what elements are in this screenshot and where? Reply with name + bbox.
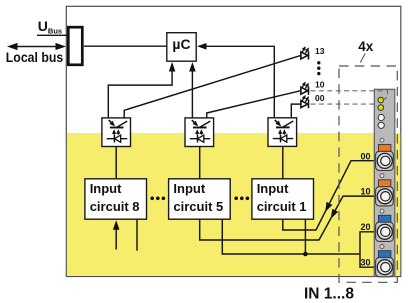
wire opto U4 output to µC (arrow) bbox=[199, 46, 274, 118]
wire input circuit 1 to ground bus bbox=[304, 219, 306, 254]
svg-text:30: 30 bbox=[360, 258, 370, 268]
ellipsis between circuit 8 and 5 bbox=[150, 197, 165, 201]
module outer frame bbox=[66, 6, 401, 276]
ground bus wire to input circuits bbox=[222, 219, 360, 254]
field side yellow area bbox=[67, 133, 400, 276]
wire terminal 10 to input circuit 5 (arrow) bbox=[200, 196, 382, 240]
dashed 4x group box bbox=[339, 66, 397, 282]
ground bus wire linking terminals 20 and 30 bbox=[360, 232, 382, 267]
svg-text:00: 00 bbox=[315, 93, 325, 103]
optocoupler U4 bbox=[268, 118, 297, 147]
svg-text:Local bus: Local bus bbox=[6, 50, 63, 65]
input circuit 1 block bbox=[252, 179, 314, 219]
terminal 10 bbox=[360, 174, 393, 206]
svg-text:UBus: UBus bbox=[38, 18, 62, 36]
wire arrow into input circuit 8 bbox=[115, 222, 117, 250]
svg-text:00: 00 bbox=[360, 151, 370, 161]
terminal 20 bbox=[360, 209, 393, 241]
local bus interface box bbox=[68, 27, 82, 65]
terminal 30 bbox=[360, 245, 393, 277]
svg-text:Input: Input bbox=[90, 181, 122, 196]
svg-text:13: 13 bbox=[315, 46, 325, 56]
svg-text:4x: 4x bbox=[358, 39, 374, 54]
front LED white 1 bbox=[378, 114, 384, 120]
local bus double arrow bbox=[11, 46, 61, 48]
wire opto U4 to input circuit 1 bbox=[282, 147, 284, 180]
input circuit 8 block bbox=[85, 179, 147, 219]
wire opto U2 to LED 13 bbox=[124, 55, 301, 118]
ellipsis between circuit 5 and 1 bbox=[234, 197, 249, 201]
wire opto U3 to LED 10 bbox=[207, 91, 301, 119]
wire opto U3 output to µC (arrow) bbox=[191, 64, 193, 118]
wire U_Bus to bus interface bbox=[37, 34, 68, 36]
front LED yellow 2 bbox=[378, 105, 384, 111]
LED indicator 10 bbox=[301, 80, 325, 95]
junction dot bbox=[303, 252, 308, 257]
terminal strip body bbox=[374, 89, 395, 276]
front LED white 2 bbox=[378, 122, 384, 128]
optocoupler U2 bbox=[102, 118, 131, 147]
input circuit 5 block bbox=[169, 179, 231, 219]
dashed link LED 00 to front LED bbox=[311, 104, 379, 107]
4x pointer line bbox=[360, 54, 365, 63]
wire opto U4 to LED 00 bbox=[291, 104, 301, 118]
svg-text:10: 10 bbox=[360, 187, 370, 197]
svg-text:circuit 8: circuit 8 bbox=[90, 199, 140, 214]
wire stub from input circuit 8 bbox=[136, 219, 138, 251]
ellipsis between LED 13 and LED 10 bbox=[317, 61, 320, 75]
svg-text:Input: Input bbox=[257, 181, 289, 196]
LED indicator 00 bbox=[301, 93, 325, 108]
svg-text:10: 10 bbox=[315, 80, 325, 90]
front LED yellow 1 bbox=[378, 97, 384, 103]
optocoupler U3 bbox=[185, 118, 214, 147]
dashed link LED 10 to front LED bbox=[311, 91, 388, 100]
svg-text:circuit 1: circuit 1 bbox=[257, 199, 307, 214]
svg-text:Input: Input bbox=[173, 181, 205, 196]
svg-text:IN 1...8: IN 1...8 bbox=[304, 286, 354, 303]
wire opto U2 output to µC (arrow) bbox=[108, 64, 172, 118]
terminal 00 bbox=[360, 138, 393, 170]
svg-text:circuit 5: circuit 5 bbox=[173, 199, 223, 214]
svg-text:µC: µC bbox=[172, 36, 190, 52]
wire opto U3 to input circuit 5 bbox=[199, 147, 201, 179]
svg-text:20: 20 bbox=[360, 222, 370, 232]
wire terminal 00 to input circuit 1 (arrow) bbox=[283, 161, 382, 230]
wire bus interface to µC bbox=[84, 45, 167, 47]
microcontroller µC bbox=[167, 33, 196, 62]
LED indicator 13 bbox=[301, 46, 325, 59]
wire opto U2 to input circuit 8 bbox=[115, 147, 117, 179]
